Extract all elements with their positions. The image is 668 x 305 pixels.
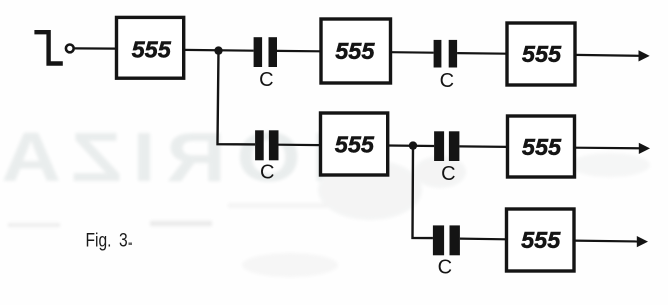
wire C5 to U6: [460, 238, 507, 241]
wire C1 to U2: [277, 50, 321, 53]
wire U1 to C1: [184, 49, 254, 52]
wire node A down to row 2: [218, 51, 256, 145]
caption Fig. 3: [86, 229, 133, 251]
wire U2 to C2: [391, 51, 434, 54]
svg-text:555: 555: [522, 41, 562, 67]
svg-text:C: C: [260, 161, 274, 183]
capacitor C3: [255, 130, 278, 183]
capacitor C2: [434, 40, 458, 92]
input pulse symbol: [34, 32, 62, 63]
svg-text:C: C: [441, 163, 455, 185]
watermark bleed-through text: [0, 119, 650, 277]
input terminal circle: [66, 45, 74, 53]
svg-text:HORIZA: HORIZA: [0, 119, 371, 197]
svg-text:C: C: [259, 69, 273, 91]
wire C4 to U5: [459, 145, 507, 148]
svg-text:555: 555: [132, 37, 172, 63]
wire node B down to row 3: [413, 146, 433, 239]
node B junction dot: [409, 141, 417, 149]
555 timer U3: [507, 23, 575, 85]
555 timer U2: [321, 19, 391, 83]
capacitor C1: [254, 37, 277, 91]
wire U4 to C4: [388, 144, 434, 147]
svg-text:C: C: [440, 70, 454, 92]
capacitor C5: [433, 225, 460, 278]
svg-text:555: 555: [335, 131, 375, 157]
output arrow row 2: [575, 143, 651, 154]
555 timer U4: [321, 113, 388, 175]
wire terminal to U1: [75, 47, 117, 49]
555 timer U5: [508, 116, 575, 177]
wire C3 to U4: [279, 144, 321, 147]
svg-text:555: 555: [335, 38, 375, 64]
wire C2 to U3: [457, 52, 507, 55]
output arrow row 1: [575, 50, 650, 61]
node A junction dot: [214, 46, 222, 54]
output arrow row 3: [574, 236, 648, 247]
svg-text:555: 555: [522, 134, 562, 160]
svg-text:Fig. 3: Fig. 3: [86, 229, 128, 251]
555 timer U1: [117, 17, 184, 78]
555 timer U6: [507, 209, 575, 271]
capacitor C4: [434, 131, 459, 185]
svg-text:C: C: [438, 257, 452, 279]
svg-text:555: 555: [521, 227, 561, 253]
